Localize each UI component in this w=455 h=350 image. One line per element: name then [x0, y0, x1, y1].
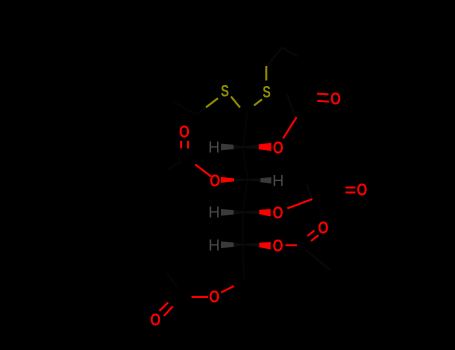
- wire ethyl CH2-CH3 on S1 (faint): [172, 101, 206, 115]
- svg-text:O: O: [179, 123, 190, 142]
- wedge C2-O (red part): [259, 143, 272, 151]
- svg-text:S: S: [221, 83, 229, 101]
- bond S1 to C1 (olive half): [231, 97, 240, 108]
- wire methyl of acetate at C5 (faint): [305, 249, 330, 270]
- svg-text:O: O: [357, 181, 368, 200]
- bond O to carbonyl C (C5 acetate, red): [286, 244, 298, 246]
- svg-text:O: O: [210, 172, 221, 191]
- svg-text:O: O: [330, 90, 341, 109]
- bond S2 to C1 (olive half): [254, 99, 262, 105]
- svg-text:O: O: [209, 288, 220, 307]
- wire methyl of acetate at C6 (faint): [167, 273, 177, 288]
- wedge C5-O (red part): [259, 242, 271, 250]
- wedge C3-O (red part): [221, 177, 234, 183]
- svg-text:O: O: [273, 204, 284, 223]
- svg-text:H: H: [208, 140, 220, 157]
- bond O to carbonyl C (C6 acetate, red): [192, 296, 209, 298]
- svg-text:H: H: [272, 173, 284, 190]
- wedge C4-H (gray part): [221, 209, 234, 216]
- svg-text:O: O: [318, 219, 329, 238]
- wedge C4-H (dark apex): [234, 210, 243, 214]
- bond S2 to ethyl CH2 (olive half): [265, 66, 267, 81]
- wedge C2-H (dark apex): [234, 145, 243, 149]
- wedge C5-H (gray part): [221, 241, 234, 248]
- svg-text:O: O: [150, 311, 161, 330]
- wedge C2-O (dark apex): [243, 144, 259, 149]
- double bond C=O (C5 acetate, red pair): [307, 230, 314, 236]
- wire methyl of acetate at C2 (faint): [287, 94, 296, 118]
- wedge C3-O (dark apex): [234, 178, 248, 181]
- bond C6 to O ester (red half): [221, 286, 234, 293]
- wedge C3-H (gray part): [260, 177, 271, 183]
- double bond C=O (C4 acetate, red pair): [345, 187, 355, 189]
- wedge C5-H (dark apex): [234, 243, 243, 247]
- svg-text:O: O: [273, 139, 284, 158]
- double bond C=O (C6 acetate, red pair): [159, 302, 168, 311]
- double bond C=O (C3 acetate, red pair, vertical): [180, 141, 182, 149]
- svg-text:O: O: [273, 237, 284, 256]
- wire ethyl CH2-CH3 on S2 (faint): [267, 48, 298, 67]
- svg-text:S: S: [262, 84, 270, 102]
- svg-text:H: H: [208, 205, 220, 222]
- wedge C2-H (gray part): [221, 144, 234, 151]
- bond O to carbonyl C (C4 acetate, red): [287, 199, 312, 208]
- wedge C4-O (red part): [259, 209, 271, 217]
- bond O to carbonyl C (C2 acetate, red): [283, 117, 297, 138]
- bond S1 to ethyl CH2 (olive half): [206, 98, 218, 107]
- bond O to carbonyl C (C3 acetate, red): [195, 164, 211, 176]
- wedge C3-H (dark apex): [248, 178, 261, 182]
- wedge C5-O (dark apex): [243, 243, 259, 247]
- wire methyl of acetate at C3 (faint): [167, 161, 182, 170]
- wedge C4-O (dark apex): [243, 210, 259, 214]
- wire backbone C1-C2-C3-C4-C5-C6 (faint): [243, 112, 248, 279]
- double bond C=O (C2 acetate, red pair): [317, 93, 329, 96]
- wire methyl of acetate at C4 (faint): [307, 185, 312, 199]
- svg-text:H: H: [208, 237, 220, 254]
